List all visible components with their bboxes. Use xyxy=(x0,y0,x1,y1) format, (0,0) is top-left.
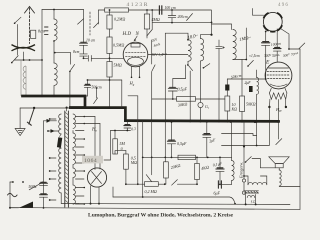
svg-text:496: 496 xyxy=(278,3,289,8)
transformer top junction xyxy=(66,107,68,112)
HT switch wire xyxy=(289,43,305,49)
trimmer capacitor C-trim xyxy=(216,40,225,123)
U3 right diagonal xyxy=(281,29,290,50)
wire y80 xyxy=(87,79,122,81)
svg-text:2μF: 2μF xyxy=(245,81,252,85)
voice coil xyxy=(279,168,281,186)
tube U2 output E xyxy=(265,62,292,89)
heater wire H1 xyxy=(222,134,257,136)
mains selector row xyxy=(10,181,44,208)
svg-text:8cm: 8cm xyxy=(73,50,80,54)
mains connector arrows xyxy=(44,119,59,133)
chassis bus thick xyxy=(23,96,279,121)
capacitor black 2uF xyxy=(249,86,253,92)
wire node row y157.4 xyxy=(143,157,232,159)
dashed gang link xyxy=(78,12,91,35)
resistor 30K horizontal xyxy=(152,97,225,102)
resistor 50K vertical xyxy=(240,60,245,123)
svg-text:50KΩ: 50KΩ xyxy=(246,102,256,107)
variable capacitor C-var xyxy=(12,45,36,51)
svg-text:Erregerw.: Erregerw. xyxy=(239,162,244,179)
switch S10 mains xyxy=(27,109,34,126)
primary taps xyxy=(49,118,56,201)
capacitor 2uF xyxy=(203,122,211,157)
wire x137.8 xyxy=(128,96,139,185)
transformer primary xyxy=(59,114,79,204)
svg-text:8cm: 8cm xyxy=(38,29,45,34)
svg-text:200cm: 200cm xyxy=(178,15,188,19)
coil L5 xyxy=(233,30,247,60)
transformer secondary xyxy=(73,114,75,204)
wire long vertical x165.3 xyxy=(164,33,189,157)
capacitor black mica xyxy=(225,79,229,96)
resistor 0,2M vertical xyxy=(107,10,112,37)
switch S5 xyxy=(147,10,155,122)
choke L6 xyxy=(256,70,259,146)
coil tap wire xyxy=(54,52,71,65)
Gr detector xyxy=(198,102,203,122)
coil L1 antenna xyxy=(21,60,26,96)
resistor R-top 50K horizontal xyxy=(99,8,212,12)
switch S8 xyxy=(172,180,198,186)
cathode zigzag resistor xyxy=(268,88,287,145)
U3 feed wire xyxy=(253,9,264,16)
output switch S11 xyxy=(245,157,261,168)
wire grid E xyxy=(245,28,247,60)
coil L2a antenna top xyxy=(53,10,57,64)
wire x121.8 xyxy=(121,80,123,108)
resistor 5M vertical lower xyxy=(107,62,112,109)
potentiometer 0,2M xyxy=(126,121,166,186)
varcap lead xyxy=(23,52,25,60)
resistor 20K vertical xyxy=(164,157,169,184)
bus end switch S9 xyxy=(276,121,282,144)
coil L3 xyxy=(188,40,191,62)
svg-text:100 cm: 100 cm xyxy=(165,6,176,10)
switch S6 grid E xyxy=(247,60,253,66)
capacitor 8cm lower xyxy=(80,54,88,58)
svg-text:5MΩ: 5MΩ xyxy=(114,63,122,68)
capacitor 0,5uF xyxy=(168,65,185,100)
wire top feed to bandfilter xyxy=(201,10,232,36)
wire top-left horiz xyxy=(42,9,84,96)
wire x43 down xyxy=(43,121,45,186)
resistor 0,5M lower vertical xyxy=(124,151,129,186)
mains wire y108 xyxy=(20,107,70,109)
wire y197 xyxy=(113,187,235,204)
capacitor 8cm top xyxy=(31,30,36,38)
svg-text:6μF: 6μF xyxy=(214,191,221,196)
field coil L7 xyxy=(232,122,235,184)
ground earth symbol xyxy=(15,108,25,136)
horizontal resistor mid xyxy=(178,155,196,159)
svg-text:1064: 1064 xyxy=(84,158,97,164)
antenna A1 xyxy=(25,7,35,44)
speaker contacts xyxy=(242,122,300,194)
label 1064 xyxy=(82,156,103,164)
resistor 10K vertical xyxy=(225,96,230,123)
bandfilter bottom wires xyxy=(187,61,193,122)
wires to rectifier 1064 xyxy=(84,117,100,170)
switch S7 mid xyxy=(94,87,98,103)
capacitor mains stack xyxy=(40,182,48,209)
capacitor 6uF xyxy=(218,181,231,188)
coil L4 xyxy=(201,35,204,61)
speaker horn xyxy=(269,157,289,168)
resistor 0,5M vertical xyxy=(107,37,112,62)
svg-text:10 cm: 10 cm xyxy=(86,39,95,43)
capacitor 100cm series xyxy=(159,6,161,14)
core dashes xyxy=(45,27,49,35)
capacitor 0,1uF xyxy=(216,157,224,185)
output transformer xyxy=(243,168,275,206)
svg-text:50Hz: 50Hz xyxy=(29,185,38,189)
svg-text:4123R: 4123R xyxy=(127,2,149,8)
right border xyxy=(299,49,301,209)
switch S4 xyxy=(94,10,99,28)
switch S2 xyxy=(11,56,18,64)
fuse F1 xyxy=(57,137,62,148)
svg-text:4MΩ: 4MΩ xyxy=(152,17,160,22)
svg-text:ƒ.L: ƒ.L xyxy=(251,200,256,204)
mains plug arrow xyxy=(9,202,33,209)
capacitor 10cm xyxy=(80,10,88,54)
resistor 4K vertical xyxy=(195,157,200,184)
capacitor 500cm xyxy=(84,80,90,96)
bus junction dots xyxy=(41,95,280,123)
wire grid line y22.6 xyxy=(152,22,212,24)
secondary taps xyxy=(75,116,85,205)
bottom wire B-minus xyxy=(79,203,290,205)
wire y130.5 xyxy=(111,130,131,132)
grid arrow xyxy=(134,36,137,41)
resistor 5M lower-left vertical xyxy=(113,131,126,155)
capacitor C-series coupling xyxy=(83,55,124,61)
transformer T-net core xyxy=(65,111,69,207)
tube U1 triode xyxy=(123,42,148,67)
tube U1 legs xyxy=(131,67,141,78)
anode wire to bandfilter xyxy=(148,54,188,56)
capacitor C-bus hatched xyxy=(124,122,131,131)
AC source symbol xyxy=(8,193,18,196)
capacitor 0,5uF lower xyxy=(167,121,175,157)
wire x110.5 xyxy=(104,131,111,161)
switch S3 xyxy=(69,64,75,107)
svg-text:H.D: H.D xyxy=(122,32,132,37)
capacitor 100cm a xyxy=(262,31,270,46)
wire B+ to anode xyxy=(227,46,266,80)
wire node row y60 xyxy=(15,59,43,61)
wire x142.7 xyxy=(142,121,144,197)
coil L2b tuned xyxy=(54,63,57,96)
switch S12 wave xyxy=(187,14,193,21)
heater wire H2 xyxy=(222,145,270,147)
capacitor 200cm xyxy=(168,10,176,24)
tube U4 rectifier xyxy=(87,168,106,187)
tube U3 rectifier topview xyxy=(263,12,282,31)
capacitor 100cm b xyxy=(273,29,281,62)
bottom frame line xyxy=(10,208,300,210)
svg-text:Hy: Hy xyxy=(91,128,97,133)
switch S1 xyxy=(14,17,21,55)
svg-text:Lumophon, Burggraf W ohne Diod: Lumophon, Burggraf W ohne Diode, Wechsel… xyxy=(88,212,234,218)
resistor 4M vertical xyxy=(144,10,149,38)
